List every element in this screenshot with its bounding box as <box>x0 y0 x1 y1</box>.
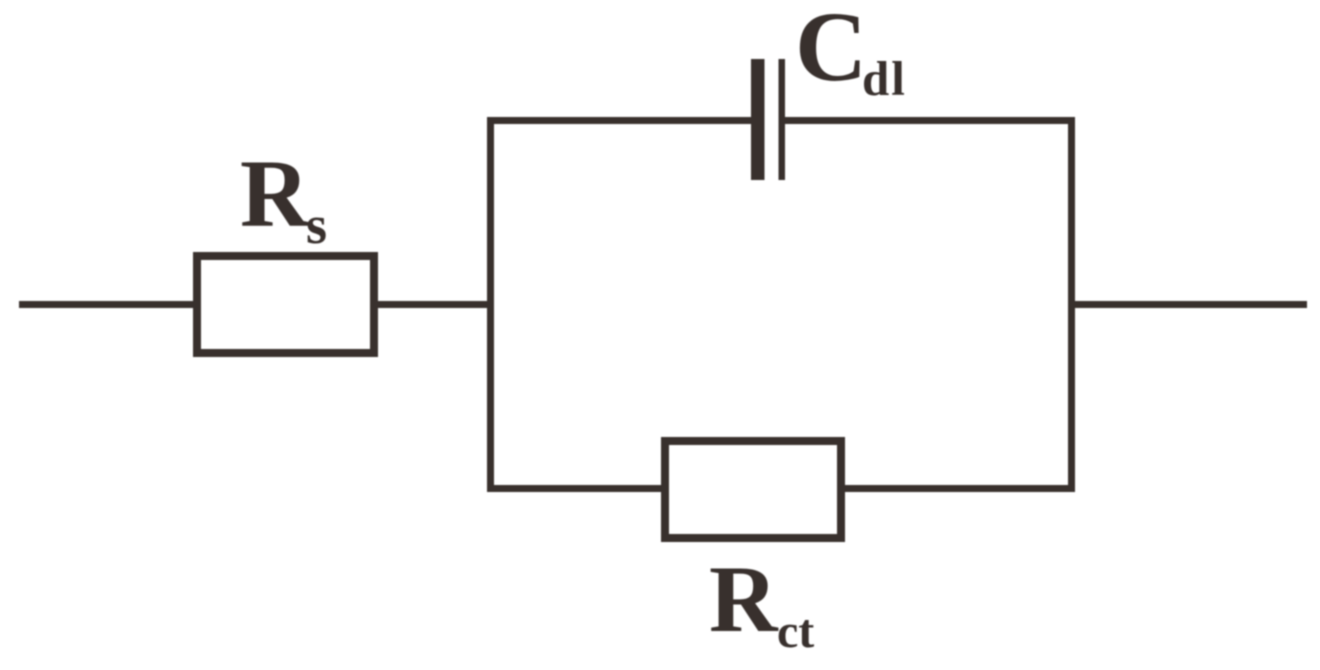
svg-text:ct: ct <box>777 605 814 658</box>
wire input left <box>19 301 197 308</box>
wire Rs to node A <box>374 301 494 308</box>
resistor Rs <box>197 256 374 353</box>
wire top rail left segment <box>487 117 752 124</box>
wire top rail right segment <box>785 117 1075 124</box>
svg-text:R: R <box>240 140 311 247</box>
wire bottom rail left segment <box>487 485 665 492</box>
svg-text:s: s <box>306 195 327 255</box>
svg-text:dl: dl <box>862 51 907 106</box>
wire right vertical branch <box>1068 117 1075 492</box>
svg-text:C: C <box>795 0 867 102</box>
resistor Rct <box>665 441 841 538</box>
wire bottom rail right segment <box>841 485 1075 492</box>
wire left vertical branch <box>487 117 494 492</box>
svg-text:R: R <box>709 546 779 652</box>
capacitor C_dl <box>751 59 785 180</box>
wire output right <box>1072 301 1307 308</box>
